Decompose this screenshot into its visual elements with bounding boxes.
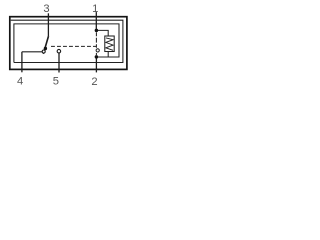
pin 2 lead [95,57,97,73]
pin 4 lead [21,52,23,73]
wire: inner loop left/second-top/right-drop to coil-bottom net [14,24,119,63]
pin 1 lead [95,12,97,30]
svg-text:4: 4 [17,76,23,88]
junction dot (pin2/coil bottom) [95,55,99,59]
armature blade [43,36,48,54]
wire: coil top from junction to coil box [96,30,108,36]
coil box [105,36,114,52]
linkage dashed horizontal [51,45,96,47]
armature pivot dot [44,47,47,50]
svg-text:3: 3 [43,3,49,15]
pin 5 lead [58,53,60,73]
junction dot (pin1/coil top) [95,29,99,33]
wire: coil bottom stub [107,52,109,58]
linkage contact circle [96,49,99,52]
NC contact circle [42,50,45,53]
svg-text:5: 5 [53,76,59,88]
NO contact circle [57,49,61,53]
svg-text:2: 2 [91,76,97,88]
wire: pin4 to NC contact [22,51,42,53]
coil zigzag [106,38,113,50]
wire: inner loop top/right/bottom [11,20,123,62]
linkage dashed vertical [95,32,97,55]
svg-text:1: 1 [92,3,98,15]
pin 3 lead [47,13,49,36]
relay outline box [10,17,127,70]
